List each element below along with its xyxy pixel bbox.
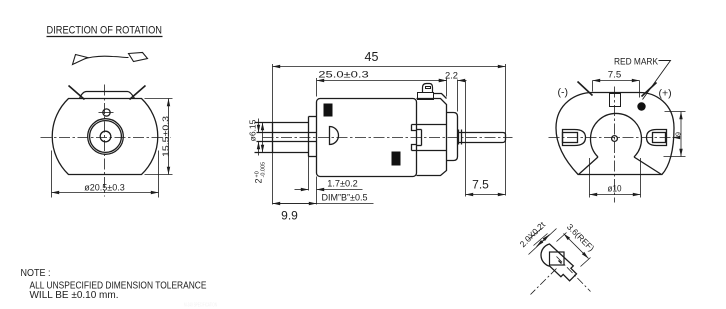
svg-text:15.5±0.3: 15.5±0.3	[161, 116, 171, 157]
svg-text:3.6(REF): 3.6(REF)	[565, 222, 597, 254]
svg-text:2.0X0.2t: 2.0X0.2t	[518, 219, 548, 249]
svg-text:(-): (-)	[558, 87, 569, 99]
svg-text:M-240 SPECIFICATION: M-240 SPECIFICATION	[184, 303, 217, 309]
svg-text:7.5: 7.5	[608, 70, 622, 80]
svg-text:2.2: 2.2	[445, 71, 458, 81]
svg-text:(+): (+)	[659, 88, 672, 100]
svg-text:WILL BE ±0.10 mm.: WILL BE ±0.10 mm.	[30, 290, 119, 301]
svg-text:9.9: 9.9	[281, 209, 298, 223]
svg-text:25.0±0.3: 25.0±0.3	[318, 70, 369, 80]
svg-text:1.7±0.2: 1.7±0.2	[327, 179, 358, 189]
svg-text:DIRECTION OF ROTATION: DIRECTION OF ROTATION	[47, 25, 163, 37]
svg-text:RED MARK: RED MARK	[614, 56, 659, 67]
svg-text:ø10: ø10	[608, 184, 622, 194]
svg-text:ø20.5±0.3: ø20.5±0.3	[84, 183, 124, 193]
svg-text:45: 45	[365, 50, 379, 64]
svg-text:NOTE :: NOTE :	[21, 268, 51, 279]
svg-text:2: 2	[254, 178, 264, 183]
svg-text:7.5: 7.5	[472, 178, 489, 192]
svg-text:-0.005: -0.005	[261, 162, 267, 178]
svg-text:9: 9	[674, 132, 683, 136]
svg-text:DIM”B”±0.5: DIM”B”±0.5	[322, 193, 368, 203]
svg-text:ø6.15: ø6.15	[248, 119, 258, 141]
